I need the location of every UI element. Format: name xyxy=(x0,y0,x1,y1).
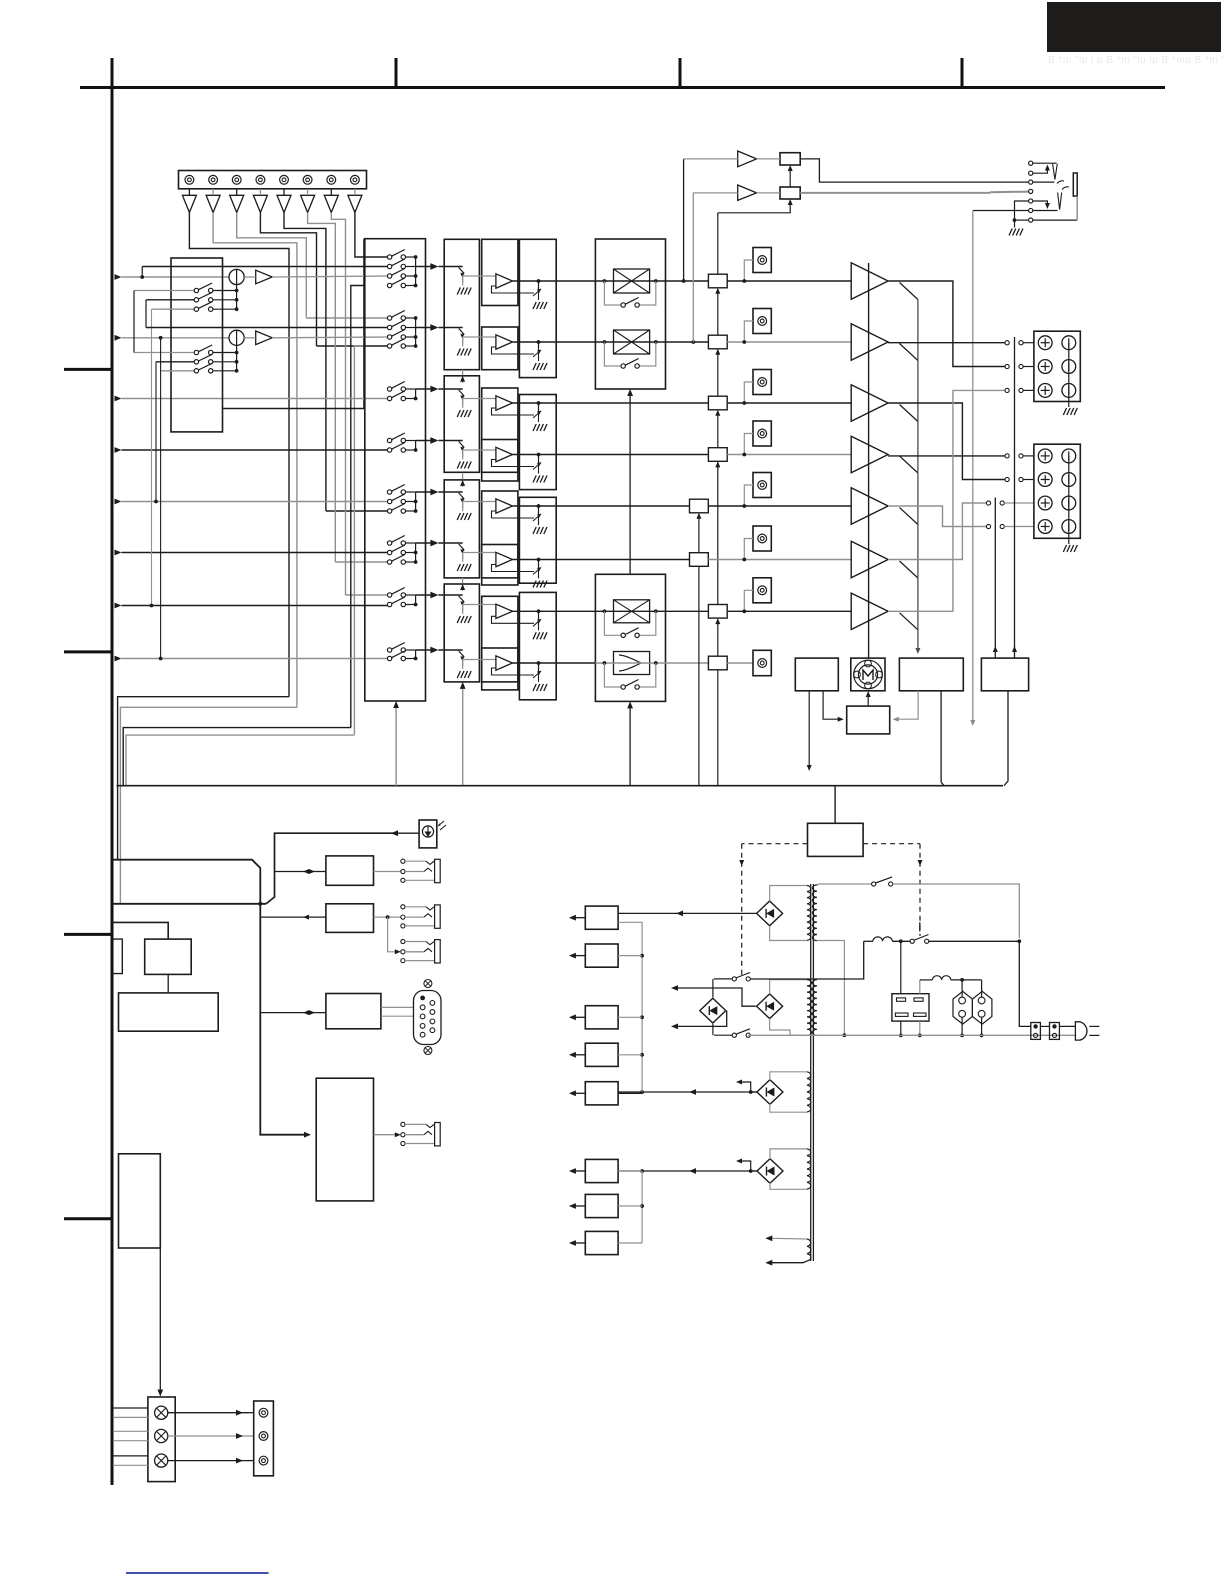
control trunk line 1 xyxy=(112,860,306,1135)
input buffer triangle T8 xyxy=(348,195,362,212)
op-amp feedback loop ch8 xyxy=(492,668,535,675)
hot link through holders xyxy=(1040,1025,1049,1027)
bank switch group 1 row 1 xyxy=(387,250,405,260)
terminal B+ 455.9 xyxy=(1038,449,1052,463)
op-amp U8 xyxy=(496,656,513,670)
bank switch group 8 row 2 xyxy=(387,651,405,661)
shunt pot ground ch7 xyxy=(538,621,540,630)
RCA jack J7 xyxy=(327,175,336,184)
regulator output arrow 1 xyxy=(573,917,585,919)
op-amp U2 xyxy=(496,335,513,349)
shunt pot ground ch6 xyxy=(538,570,540,579)
ruler tick left 1 xyxy=(64,368,112,371)
wiper wire ch3 xyxy=(463,398,496,400)
wire buffer 6 drop and route xyxy=(308,213,336,563)
terminal B- 526.5 xyxy=(1062,520,1076,534)
protection box L xyxy=(795,658,838,691)
RCA jack J6 xyxy=(303,175,312,184)
op-amp U4 xyxy=(496,447,513,461)
terminal B+ 479.5 xyxy=(1038,473,1052,487)
rear input RCA jack strip xyxy=(179,171,367,189)
mute column drop to control bus A xyxy=(698,566,700,785)
record selector switch group 2 row 2 xyxy=(156,361,194,363)
tape-out wire from bank 2 xyxy=(354,346,364,735)
DB9 screw bottom xyxy=(424,1047,432,1055)
power amp triangle PA4 xyxy=(851,436,888,472)
voltage selector plate R xyxy=(972,991,992,1024)
left border rule xyxy=(111,58,114,1485)
BR2b leads xyxy=(770,980,807,994)
regulator box REG5 xyxy=(585,1082,618,1105)
headphone level box L xyxy=(780,153,800,165)
speaker output ch4 route xyxy=(888,455,1005,457)
bank switch group 2 row 3 xyxy=(387,330,405,340)
wire jack J1 to buffer xyxy=(188,189,190,196)
secondary winding 4 xyxy=(807,1149,811,1189)
secondary winding 2 xyxy=(807,980,812,1036)
cap block feeds xyxy=(900,941,902,993)
terminal A+ 366.5 xyxy=(1038,360,1052,374)
power amp triangle PA5 xyxy=(851,488,888,524)
mute/level box ch6 xyxy=(690,553,709,567)
bank switch group 8 row 1 xyxy=(387,643,405,653)
bank group 3 join bus xyxy=(415,389,417,399)
channel 7 input arrow xyxy=(115,603,122,609)
volume pot ch8 xyxy=(438,649,462,651)
power amp triangle PA1 xyxy=(851,263,888,299)
BR4 xyxy=(757,1159,783,1184)
speaker relay contact A3 xyxy=(1005,388,1009,392)
bank switch group 7 row 1 xyxy=(387,588,405,598)
pre-out jack ch4 xyxy=(753,421,771,446)
dashed control right xyxy=(863,843,920,845)
regulator collector lower xyxy=(641,1171,643,1243)
hot drop to inlet xyxy=(1019,941,1031,1026)
terminal A- 366.5 xyxy=(1062,360,1076,374)
headphone feed tap ch1 xyxy=(682,279,686,283)
relay actuator bar 1 xyxy=(1014,337,1016,658)
volume block V1 xyxy=(444,239,479,369)
op-amp output ch6 xyxy=(513,559,690,561)
wire jack J7 to buffer xyxy=(330,189,332,196)
bridge rectifier BR1 xyxy=(757,901,783,926)
speaker terminal block A xyxy=(1034,331,1080,401)
front aux box A xyxy=(326,856,374,885)
bank group 1 join bus xyxy=(415,257,417,286)
lamp output arrow 1 xyxy=(168,1412,248,1414)
RCA jack J8 xyxy=(351,175,360,184)
volume pot ground ch7 xyxy=(462,610,464,614)
op-amp U6 xyxy=(496,552,513,566)
top ruler line xyxy=(80,86,1165,89)
lamp feed pair 1 xyxy=(113,1407,148,1409)
lamp jack 1 xyxy=(259,1408,268,1417)
bank group 6 join bus xyxy=(415,543,417,562)
dashed control left xyxy=(742,843,808,845)
bank group 4 join bus xyxy=(415,441,417,451)
wiper wire ch8 xyxy=(463,659,496,661)
speaker output ch3 route xyxy=(888,403,1005,480)
record selector output bus 1 xyxy=(236,291,238,310)
channel 4 input arrow xyxy=(115,447,122,453)
DB9 screw top xyxy=(424,980,432,988)
opamp board outline left ch7 xyxy=(482,596,518,682)
display box E xyxy=(145,939,192,974)
volume pot ground ch4 xyxy=(462,456,464,460)
op-amp output ch8 xyxy=(513,662,596,664)
cap block to neutral xyxy=(900,1021,902,1035)
selector feeds xyxy=(961,980,963,997)
headphone wire L xyxy=(800,159,1028,182)
wire to control section 4 xyxy=(126,735,354,786)
volume block V2 xyxy=(444,376,479,473)
zone jack xyxy=(401,1122,440,1146)
regulator output arrow 8 xyxy=(573,1242,585,1244)
mains fuse F1 xyxy=(873,937,892,941)
volume pot ch5 xyxy=(438,491,462,493)
aux B jack xyxy=(374,916,401,918)
summing node ch2 xyxy=(229,330,244,345)
signal row wire ch6 to power amp xyxy=(708,559,851,561)
output shunt pot ch1 xyxy=(538,281,540,291)
terminal B- 455.9 xyxy=(1062,449,1076,463)
power amp stage diagonal 1 xyxy=(900,283,918,300)
power amp stage diagonal 4 xyxy=(900,456,918,473)
BR4 output line xyxy=(618,1170,757,1172)
mute/level box ch2 xyxy=(708,335,727,349)
wire jack J5 to buffer xyxy=(283,189,285,196)
keys box G xyxy=(119,1154,161,1248)
bank switch group 7 row 2 xyxy=(387,597,405,607)
bank switch group 5 row 2 xyxy=(387,494,405,504)
wire buffer 4 drop and route xyxy=(260,213,316,347)
bank group 5 output arrow ch5 xyxy=(416,491,434,493)
opamp board outline right R1 xyxy=(519,239,556,377)
opamp board outline left ch3 xyxy=(482,388,518,472)
servo wiring L xyxy=(808,691,810,766)
bank group 1 output arrow ch1 xyxy=(416,266,434,268)
lamp output arrow 3 xyxy=(168,1460,248,1462)
wiper wire ch4 xyxy=(463,449,496,451)
channel 6 input arrow xyxy=(115,550,122,556)
board bracket at border xyxy=(112,939,123,974)
opamp board outline right R3 xyxy=(519,497,556,583)
BR4 leads xyxy=(770,1149,807,1159)
bypass switch ch7 xyxy=(604,611,621,635)
power amp stage diagonal 3 xyxy=(900,405,918,422)
fuse holder block 2 xyxy=(1050,1023,1060,1040)
volume pot ground ch8 xyxy=(462,665,464,669)
panel lamp 2 xyxy=(155,1429,168,1442)
bank switch group 4 row 2 xyxy=(387,443,405,453)
headphone wire R xyxy=(799,192,801,194)
signal row wire ch3 to power amp xyxy=(727,402,851,404)
aux B link xyxy=(260,916,326,918)
mute/level box ch5 xyxy=(690,499,709,513)
mute/level box ch3 xyxy=(708,396,727,410)
bank group 2 output arrow ch2 xyxy=(416,327,434,329)
headphone amp input R xyxy=(693,192,737,194)
relay driver box R2 xyxy=(981,658,1028,691)
op-amp U1 xyxy=(496,274,513,288)
headphone level control chain xyxy=(789,168,791,187)
headphone sleeve drop xyxy=(1076,196,1078,220)
output shunt pot ch7 xyxy=(538,611,540,621)
shunt pot ground ch5 xyxy=(538,516,540,525)
power relay contact lower xyxy=(732,1033,736,1037)
volume block V3 xyxy=(444,480,479,578)
relay driver drop to bus xyxy=(1004,691,1008,786)
bank group 4 output arrow ch4 xyxy=(416,440,434,442)
line buffer amp ch1 xyxy=(256,270,273,284)
op-amp output ch7 xyxy=(513,610,596,612)
pre-out branch ch3 xyxy=(744,382,753,403)
bridge rectifier BR2b xyxy=(757,994,783,1019)
bank switch group 3 row 1 xyxy=(387,382,405,392)
amp rail vertical xyxy=(868,263,870,658)
lamp jack 3 xyxy=(259,1456,268,1465)
lamp jack block xyxy=(254,1401,274,1476)
ruler tick top 2 xyxy=(679,58,682,88)
summing node ch1 xyxy=(229,269,244,284)
wire buffer 7 drop and route xyxy=(331,213,345,596)
op-amp feedback loop ch5 xyxy=(492,511,535,518)
wire buffer 2 drop and route xyxy=(213,213,297,708)
ruler tick left 2 xyxy=(64,650,112,653)
volume pot ch1 xyxy=(438,266,462,268)
regulator box REG1 xyxy=(585,906,618,929)
ruler tick top 3 xyxy=(961,58,964,88)
zone jack link xyxy=(374,1134,397,1136)
line buffer amp ch2 xyxy=(256,331,273,345)
limiter box ch8 xyxy=(614,652,650,675)
RS232 box C xyxy=(326,994,381,1029)
speaker output ch6 route xyxy=(888,503,986,560)
bank switch group 3 row 2 xyxy=(387,391,405,401)
mute/level box ch7 xyxy=(708,605,727,619)
terminal B- 479.5 xyxy=(1062,473,1076,487)
wire feed into input switch bank row y=318 xyxy=(306,317,387,319)
input buffer triangle T6 xyxy=(301,195,315,212)
regulator output arrow 3 xyxy=(573,1016,585,1018)
op-amp U3 xyxy=(496,396,513,410)
record selector output bus 2 xyxy=(236,353,238,371)
speaker relay contact B2 xyxy=(1005,477,1009,481)
front aux box B xyxy=(326,904,374,933)
panel lamp 3 xyxy=(155,1454,168,1467)
summed output wire ch1 xyxy=(244,276,256,278)
tap vertical v160 xyxy=(159,336,163,340)
bank switch group 6 row 2 xyxy=(387,545,405,555)
summing board outline xyxy=(223,239,364,409)
opamp board outline left ch1 xyxy=(482,239,518,305)
terminal A- 342.7 xyxy=(1062,336,1076,350)
protector drop to bus xyxy=(941,691,944,786)
signal row wire ch8 to power amp xyxy=(727,662,753,664)
mains wire to inlet xyxy=(893,884,1020,938)
op-amp feedback loop ch6 xyxy=(492,565,535,572)
primary tap lead xyxy=(817,941,844,1036)
crossed matrix box ch2 xyxy=(614,330,650,354)
wire buffer 3 drop and route xyxy=(237,213,307,319)
regulator output arrow 6 xyxy=(573,1170,585,1172)
lamp jack 2 xyxy=(259,1432,268,1441)
servo box center xyxy=(847,706,890,734)
wiper wire ch6 xyxy=(463,552,496,554)
hot wire to junction xyxy=(929,940,1020,942)
speaker output ch2 route xyxy=(888,342,1005,344)
secondary winding 3 xyxy=(807,1072,811,1112)
op-amp U5 xyxy=(496,499,513,513)
regulator output arrow 5 xyxy=(573,1092,585,1094)
wire jack J4 to buffer xyxy=(259,189,261,196)
control trunk line 2 xyxy=(112,903,266,905)
BR3 xyxy=(757,1080,783,1105)
bank switch group 2 row 4 xyxy=(387,339,405,349)
pre-out jack ch7 xyxy=(753,578,771,603)
regulator feed 5 xyxy=(618,1092,642,1094)
wire buffer 1 drop and route xyxy=(189,213,289,697)
regulator output arrow 4 xyxy=(573,1054,585,1056)
record selector switch group 1 row 2 xyxy=(146,299,194,301)
pre-out jack ch8 xyxy=(753,650,771,675)
heater winding lead upper xyxy=(770,1237,807,1240)
display link E-F xyxy=(167,974,169,993)
pre-out jack ch3 xyxy=(753,370,771,395)
lamp feed wire xyxy=(159,1154,161,1392)
headphone tip rest L xyxy=(1033,181,1055,183)
input buffer triangle T4 xyxy=(253,195,267,212)
speaker output ch5 route xyxy=(888,506,986,527)
regulator box REG3 xyxy=(585,1006,618,1029)
op-amp output ch2 xyxy=(513,341,596,343)
power amp stage diagonal 2 xyxy=(900,344,918,361)
input selector switch bank block xyxy=(365,239,426,701)
RCA jack J4 xyxy=(256,175,265,184)
tap vertical v146 xyxy=(145,300,147,328)
input buffer triangle T5 xyxy=(277,195,291,212)
signal row wire ch2 to power amp xyxy=(727,341,851,343)
DSP block upper xyxy=(595,239,665,389)
BR1 output xyxy=(618,912,757,914)
bypass switch ch8 xyxy=(604,663,621,687)
bank switch group 6 row 3 xyxy=(387,555,405,565)
record selector block xyxy=(171,258,223,432)
headphone jack tip elbow xyxy=(1033,162,1057,164)
output shunt pot ch4 xyxy=(538,455,540,465)
bank group 3 output arrow ch3 xyxy=(416,388,434,390)
channel 8 input arrow xyxy=(115,656,122,662)
mute column drop to control bus B xyxy=(717,670,719,786)
wire to control section 3 xyxy=(123,728,351,786)
terminal A+ 342.7 xyxy=(1038,336,1052,350)
headphone jack contacts xyxy=(1029,161,1033,165)
regulator output arrow 7 xyxy=(573,1205,585,1207)
opamp board outline left ch2 xyxy=(482,327,518,370)
system control bus xyxy=(117,785,1004,787)
bank group 8 output arrow ch8 xyxy=(416,649,434,651)
pre-out jack ch6 xyxy=(753,526,771,551)
matrix row line ch1 xyxy=(595,280,708,282)
opamp board outline left ch8 xyxy=(482,648,518,690)
terminal B+ 526.5 xyxy=(1038,520,1052,534)
op-amp feedback loop ch7 xyxy=(492,616,535,623)
heater winding lead lower xyxy=(770,1261,807,1263)
direct wire ch1 xyxy=(142,266,387,268)
output shunt pot ch5 xyxy=(538,506,540,516)
primary winding upper xyxy=(807,886,811,941)
terminal B- 503 xyxy=(1062,496,1076,510)
wire jack J8 to buffer xyxy=(354,189,356,196)
terminal B+ 503 xyxy=(1038,496,1052,510)
lamp feed pair 3 xyxy=(113,1455,148,1457)
headphone level box R xyxy=(780,187,800,199)
power amp triangle PA7 xyxy=(851,593,888,629)
record selector switch group 1 row 1 xyxy=(134,290,194,292)
signal row wire ch7 to power amp xyxy=(727,610,851,612)
servo wiring R xyxy=(897,691,919,719)
volume pot ch4 xyxy=(438,440,462,442)
RCA jack J3 xyxy=(232,175,241,184)
power switch S1 xyxy=(899,939,903,943)
primary top lead xyxy=(817,883,872,886)
opamp board outline left ch5 xyxy=(482,491,518,578)
front panel box F xyxy=(119,993,219,1031)
headphone ground xyxy=(1014,220,1016,227)
headphone amp triangle R xyxy=(738,185,757,200)
power amp stage diagonal 5 xyxy=(900,508,918,525)
power amp stage diagonal 7 xyxy=(900,613,918,630)
output shunt pot ch3 xyxy=(538,403,540,413)
relay loop xyxy=(712,979,714,997)
op-amp output ch4 xyxy=(513,454,709,456)
blue footer underline xyxy=(126,1572,269,1574)
opamp board outline right R4 xyxy=(519,592,556,699)
row line ch8 xyxy=(595,662,708,664)
volume pot ground ch1 xyxy=(462,282,464,286)
primary winding right upper xyxy=(813,885,818,941)
headphone tip rest R xyxy=(1062,187,1069,190)
speaker terminal block B xyxy=(1034,444,1080,538)
pre-out branch ch5 xyxy=(744,485,753,506)
output shunt pot ch6 xyxy=(538,560,540,570)
mute box chain ch5-6 xyxy=(698,516,700,553)
op-amp feedback loop ch1 xyxy=(492,286,535,293)
bank switch group 1 row 4 xyxy=(387,278,405,288)
servo wiring motor xyxy=(867,694,869,706)
tap vertical v151 xyxy=(151,309,153,605)
record selector switch group 1 row 3 xyxy=(152,308,195,310)
bank switch group 1 row 3 xyxy=(387,269,405,279)
bypass switch ch2 xyxy=(604,342,621,366)
secondary winding 5 xyxy=(807,1239,811,1261)
terminal A- 390.4 xyxy=(1062,384,1076,398)
headphone ring tie xyxy=(1015,201,1029,220)
shunt pot ground ch2 xyxy=(538,352,540,361)
wire to control section 1 xyxy=(118,697,289,860)
wiper wire ch5 xyxy=(463,501,496,503)
DSP control feed vertical xyxy=(629,705,631,786)
RS232 link xyxy=(260,1012,326,1014)
terminal block B common xyxy=(1068,456,1070,538)
power amp triangle PA6 xyxy=(851,541,888,577)
pre-out branch ch1 xyxy=(744,260,753,281)
output shunt pot ch8 xyxy=(538,663,540,673)
volume pot ch2 xyxy=(438,327,462,329)
regulator box REG4 xyxy=(585,1043,618,1066)
output shunt pot ch2 xyxy=(538,342,540,352)
DSP block lower xyxy=(595,574,665,701)
